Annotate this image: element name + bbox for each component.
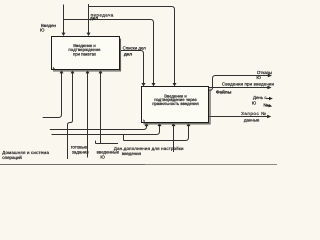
wire: output Сведения from box2 right xyxy=(209,87,268,89)
arrowhead output Запрос xyxy=(267,115,271,119)
arrowhead into box2 bottom x=159.5 xyxy=(158,123,162,126)
bottom border line xyxy=(0,164,145,166)
arrowhead stub День xyxy=(269,97,273,100)
svg-text:Сведения при введении: Сведения при введении xyxy=(222,82,275,87)
svg-text:введения: введения xyxy=(122,151,142,156)
svg-text:№: № xyxy=(263,102,268,107)
wire: mechanism line 3 into box2 bottom (fork) xyxy=(124,125,189,152)
svg-text:правильность введения: правильность введения xyxy=(152,101,198,106)
box A2 shadow xyxy=(144,89,211,124)
wire: mechanism jog line under box1 xyxy=(68,73,73,159)
svg-text:Ю: Ю xyxy=(256,75,261,80)
wire: mechanism vertical x=87.5 xyxy=(87,73,89,158)
svg-text:данные: данные xyxy=(244,118,260,123)
wire: mechanism line 2 into box2 bottom xyxy=(52,125,160,134)
wire: output Запрос from box2 right xyxy=(209,116,268,118)
arrowhead into box1 top left xyxy=(62,33,66,36)
svg-text:Ю: Ю xyxy=(40,28,45,33)
arrowhead into box1 bottom x=100.5 xyxy=(99,70,103,73)
svg-text:дел: дел xyxy=(90,16,98,21)
svg-text:ь: ь xyxy=(53,66,55,70)
arrowhead into box2 top (line B) xyxy=(152,83,156,86)
wire: mechanism line 1 into box2 bottom xyxy=(50,125,147,129)
arrowhead output Сведения xyxy=(267,86,271,90)
arrowhead output Отказы xyxy=(268,74,272,78)
arrowhead into box1 top right xyxy=(87,33,91,36)
wire: stub arrow № xyxy=(267,104,270,107)
arrowhead into box2 bottom x=173.5 xyxy=(172,123,176,126)
arrowhead into box1 bottom x=72.5 xyxy=(71,70,75,73)
wire: line A across top to box2 xyxy=(89,7,175,84)
wire: line B (передача дел) to box2 xyxy=(64,20,154,84)
arrowhead into box2 top (Списки дел) xyxy=(142,83,146,86)
arrowhead into box2 bottom x=188.5 xyxy=(187,123,191,126)
arrowhead into box2 top (line A) xyxy=(173,83,177,86)
wire: control arrow into box1 top (right) xyxy=(88,4,90,33)
wire: mechanism vertical x=100.5 with foot xyxy=(96,73,119,144)
svg-text:Ю: Ю xyxy=(100,155,105,160)
svg-text:Запрос №: Запрос № xyxy=(241,111,266,116)
box A2: activity box 2 xyxy=(142,87,209,123)
svg-text:ь: ь xyxy=(143,119,145,123)
wire: control arrow into box1 top (left) xyxy=(63,5,65,34)
wire: box1 output (Списки дел) to box2 top xyxy=(120,51,144,84)
svg-text:операций: операций xyxy=(2,155,22,160)
arrowhead into box2 bottom x=146.5 xyxy=(145,123,149,126)
wire: stub arrow День xyxy=(266,98,269,100)
arrowhead into box1 bottom x=61.5 xyxy=(60,70,64,73)
arrowhead into box1 bottom x=87.5 xyxy=(86,70,90,73)
svg-text:дел: дел xyxy=(124,51,132,56)
svg-text:задания: задания xyxy=(72,149,89,154)
wire: output Отказы riser from box2 right xyxy=(209,76,269,91)
box A1 shadow xyxy=(53,39,121,71)
svg-text:День с: День с xyxy=(253,95,267,100)
svg-text:Файлы: Файлы xyxy=(216,89,232,94)
svg-text:Списки дел: Списки дел xyxy=(123,46,147,51)
wire: mechanism L under box1 xyxy=(43,73,62,118)
box A1: activity box 1 xyxy=(52,37,120,70)
arrowhead stub № xyxy=(268,104,272,107)
svg-text:при пакетах: при пакетах xyxy=(73,52,97,57)
svg-text:Ю: Ю xyxy=(252,101,257,106)
